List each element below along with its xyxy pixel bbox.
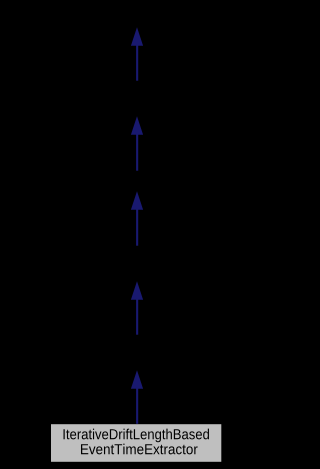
node label line 2: EventTimeExtractor [81,444,198,455]
wire: inheritance arrow 1 (topmost, to base class level 1) [131,27,143,80]
wire: inheritance arrow 5 (from current class up) [131,370,143,424]
wire: inheritance arrow 4 (level 4 to level 3) [131,281,143,335]
node IterativeDriftLengthBasedEventTimeExtractor (current class box) [51,424,221,462]
node label line 1: IterativeDriftLengthBased [64,429,210,443]
wire: inheritance arrow 2 (level 2 to level 1) [131,116,143,171]
wire: inheritance arrow 3 (level 3 to level 2) [131,191,143,246]
